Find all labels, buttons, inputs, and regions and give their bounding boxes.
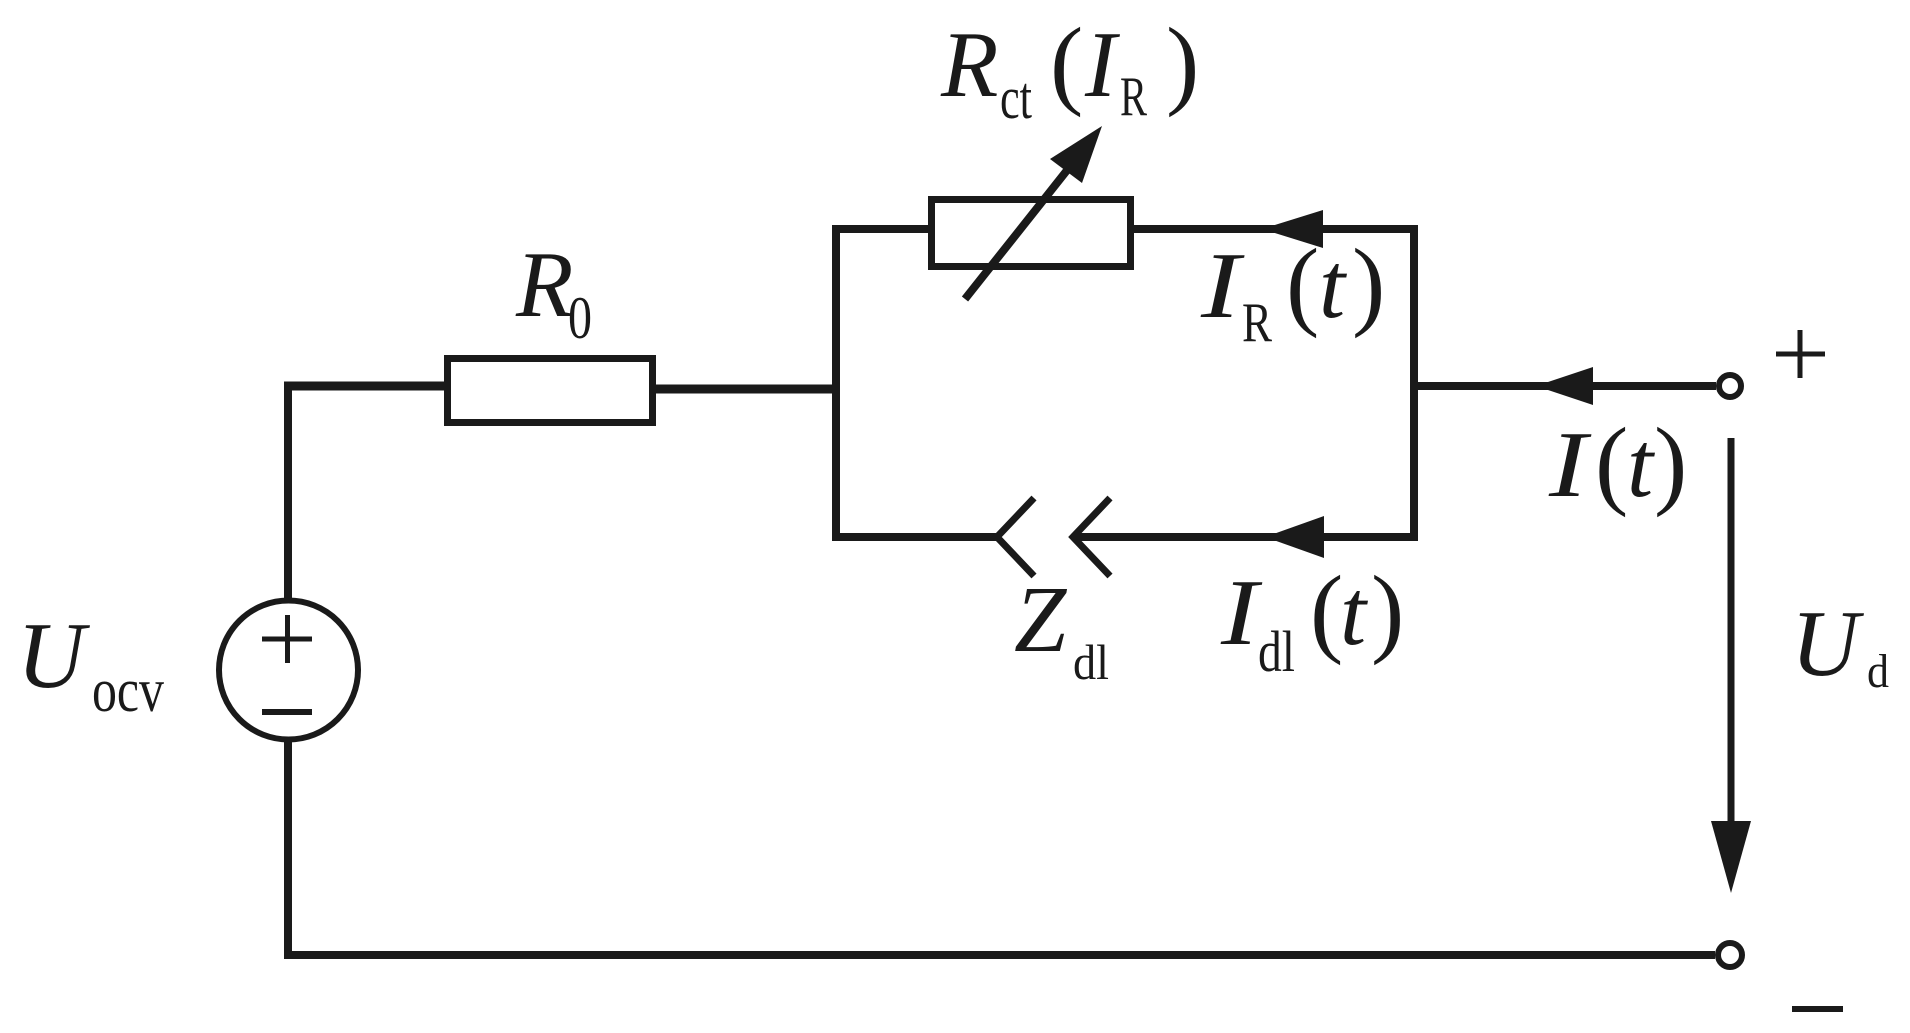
label Uocv <box>17 604 164 725</box>
wire main top left segment <box>284 382 450 391</box>
wire bottom <box>284 951 1715 959</box>
wire left vertical upper <box>284 382 292 601</box>
wire left vertical lower <box>284 739 292 959</box>
label Zdl <box>1014 568 1109 690</box>
svg-text:I: I <box>1200 234 1245 338</box>
label I(t) <box>1548 407 1688 518</box>
svg-text:): ) <box>1371 555 1404 666</box>
arrowhead current IR direction <box>1262 210 1323 248</box>
svg-text:dl: dl <box>1258 619 1295 684</box>
svg-text:(: ( <box>1050 7 1083 118</box>
svg-text:): ) <box>1166 7 1199 118</box>
label Ud <box>1791 592 1889 698</box>
wire main between R0 and parallel block <box>652 385 840 394</box>
plus sign terminal <box>1776 330 1825 378</box>
wire parallel block right vertical <box>1410 225 1418 541</box>
svg-text:0: 0 <box>568 285 592 351</box>
label IR(t) <box>1200 228 1386 354</box>
wire top branch left segment <box>832 225 934 233</box>
resistor R0 <box>448 359 653 423</box>
svg-text:U: U <box>1791 592 1864 696</box>
svg-text:(: ( <box>1595 407 1628 518</box>
label R0 <box>515 233 592 351</box>
svg-text:R: R <box>1120 66 1147 128</box>
svg-text:dl: dl <box>1073 634 1109 690</box>
voltage source minus sign <box>262 709 312 715</box>
voltage source Uocv circle <box>219 601 358 740</box>
svg-text:(: ( <box>1286 228 1319 339</box>
svg-text:R: R <box>515 233 573 337</box>
svg-text:ocv: ocv <box>92 657 164 725</box>
svg-text:t: t <box>1319 234 1347 338</box>
wire top branch right segment <box>1128 225 1418 233</box>
arrowhead current Idl direction <box>1265 516 1324 558</box>
svg-text:U: U <box>17 604 90 708</box>
wire parallel block left vertical <box>832 226 840 541</box>
svg-text:I: I <box>1548 413 1592 517</box>
variable resistor arrow shaft <box>965 164 1072 299</box>
svg-text:I: I <box>1220 561 1263 665</box>
svg-text:d: d <box>1867 645 1889 698</box>
voltage source plus sign <box>262 615 312 663</box>
impedance Zdl chevron 2 <box>1073 498 1110 576</box>
svg-text:R: R <box>940 13 998 117</box>
svg-text:t: t <box>1627 413 1655 517</box>
voltage arrow Ud shaft <box>1728 438 1735 822</box>
terminal negative node <box>1718 943 1742 967</box>
svg-text:t: t <box>1340 561 1368 665</box>
label Rct(IR) <box>940 7 1199 131</box>
svg-text:(: ( <box>1310 555 1343 666</box>
svg-text:I: I <box>1084 13 1120 117</box>
svg-text:): ) <box>1654 407 1687 518</box>
arrowhead current I direction <box>1536 367 1593 405</box>
impedance Zdl chevron 1 <box>997 498 1034 576</box>
wire bottom branch right segment <box>1073 533 1418 541</box>
svg-text:): ) <box>1352 228 1385 339</box>
terminal positive node <box>1719 375 1741 397</box>
voltage arrow Ud head <box>1711 821 1751 893</box>
variable resistor arrowhead <box>1050 126 1102 183</box>
label Idl(t) <box>1220 555 1404 684</box>
variable resistor Rct <box>932 200 1131 267</box>
minus sign terminal <box>1792 1006 1843 1012</box>
svg-text:Z: Z <box>1014 568 1068 672</box>
svg-text:ct: ct <box>1000 65 1032 131</box>
svg-text:R: R <box>1242 292 1273 354</box>
wire main right segment <box>1410 382 1716 390</box>
wire bottom branch left segment <box>832 533 997 541</box>
